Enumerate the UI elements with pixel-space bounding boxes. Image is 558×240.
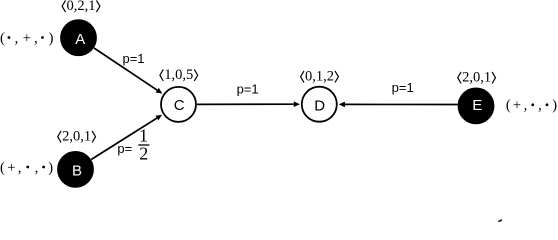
svg-text:0,2,1: 0,2,1 — [67, 0, 96, 14]
edge label p=1/2 (B to C) — [117, 126, 149, 164]
partial parenthesis tip at bottom edge — [498, 220, 501, 223]
wire E to D with arrowhead — [339, 102, 458, 108]
node B — [58, 152, 93, 187]
node D tuple label 0,1,2 — [301, 69, 339, 85]
wire C to D with arrowhead — [197, 101, 300, 107]
svg-text:2: 2 — [139, 144, 148, 164]
svg-text:p=1: p=1 — [122, 51, 144, 66]
svg-text:B: B — [72, 162, 82, 179]
svg-text:A: A — [75, 31, 85, 48]
svg-text:2,0,1: 2,0,1 — [462, 70, 491, 86]
node A — [61, 20, 96, 55]
node C — [161, 87, 196, 122]
svg-text:1: 1 — [139, 126, 148, 146]
node E — [459, 88, 494, 123]
wire B to C with arrowhead — [91, 115, 162, 160]
svg-text:(+,,): (+,,) — [506, 98, 557, 114]
svg-text:(+,,): (+,,) — [0, 160, 53, 176]
svg-text:E: E — [472, 97, 482, 114]
wire A to C with arrowhead — [94, 48, 162, 94]
svg-text:p=1: p=1 — [237, 81, 259, 96]
svg-text:D: D — [314, 97, 325, 114]
svg-text:0,1,2: 0,1,2 — [305, 69, 334, 85]
svg-text:p=: p= — [117, 141, 132, 156]
node D — [302, 87, 337, 122]
node A tuple label 0,2,1 — [62, 0, 100, 14]
svg-text:C: C — [174, 97, 185, 114]
node C tuple label 1,0,5 — [160, 67, 198, 83]
node E tuple label 2,0,1 — [458, 70, 496, 86]
svg-text:2,0,1: 2,0,1 — [62, 129, 91, 145]
node B reward label — [0, 160, 53, 176]
svg-text:1,0,5: 1,0,5 — [164, 67, 193, 83]
node B tuple label 2,0,1 — [58, 129, 96, 145]
svg-text:p=1: p=1 — [392, 80, 414, 95]
node E reward label — [506, 98, 557, 114]
node A reward label — [0, 30, 54, 46]
